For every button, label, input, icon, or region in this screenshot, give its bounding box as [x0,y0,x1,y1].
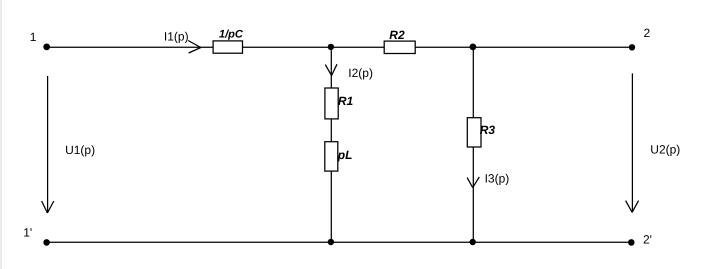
capacitor C 1/pC [213,41,242,53]
wire: terminal 1 to capacitor [47,46,214,48]
wire: node A down to R1 (middle branch) [330,47,332,89]
svg-text:I3(p): I3(p) [485,172,510,186]
resistor R3 [467,118,481,147]
junction dot bottom middle [328,239,334,245]
bottom rail wire: middle junction to right junction [331,241,473,243]
terminal 2 dot [629,44,635,50]
svg-text:R2: R2 [389,28,405,42]
svg-text:R3: R3 [480,123,496,137]
bottom rail wire: 1' to middle junction [47,241,331,243]
faint left screen edge line [0,0,2,269]
wire: R3 to bottom rail [472,147,474,242]
wire: node B down to R3 (right branch) [472,47,474,118]
svg-text:pL: pL [337,148,353,162]
svg-text:2: 2 [644,26,651,40]
bottom rail wire: right junction to 2' [473,241,632,243]
wire: capacitor to node A [243,46,331,48]
wire: R1 to pL [330,119,332,142]
junction dot bottom right [470,239,476,245]
wire: node B to terminal 2 [473,46,632,48]
svg-text:R1: R1 [338,94,354,108]
current arrow I3(p) [467,177,479,188]
current arrow I1(p) [188,41,201,54]
terminal 1' dot [43,239,50,246]
current arrow I2(p) [325,64,337,75]
svg-text:I2(p): I2(p) [348,66,373,80]
terminal 2' dot [628,239,635,246]
wire: pL to bottom rail [330,171,332,242]
svg-text:1/pC: 1/pC [219,29,244,41]
voltage arrow U1(p) [42,76,54,213]
inductor pL [325,142,338,171]
resistor R1 [325,88,338,119]
svg-text:U2(p): U2(p) [650,142,680,156]
svg-text:2': 2' [643,233,652,247]
svg-text:1: 1 [30,30,37,44]
wire: node A to R2 [331,46,384,48]
terminal 1 dot [43,44,50,51]
junction node B dot [470,44,477,51]
junction node A dot [328,44,334,50]
voltage arrow U2(p) [626,73,639,212]
resistor R2 [384,41,415,53]
svg-text:I1(p): I1(p) [164,29,189,43]
wire: R2 to node B [415,46,473,48]
svg-text:U1(p): U1(p) [65,143,95,157]
svg-text:1': 1' [23,226,32,240]
